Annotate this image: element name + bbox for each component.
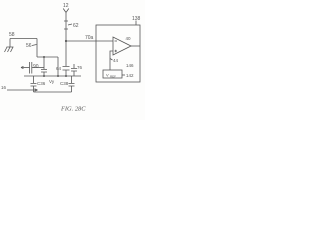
wire: horizontal mid bbox=[37, 56, 58, 58]
node dot at main rail / opamp input bbox=[65, 40, 67, 42]
input wire y67 left bbox=[21, 67, 30, 69]
lower box right vertical with cap bbox=[69, 76, 75, 92]
op-amp U1 bbox=[113, 37, 131, 55]
node dot on mid wire bbox=[43, 56, 45, 58]
svg-text:44: 44 bbox=[113, 58, 119, 63]
plus sign bbox=[115, 50, 118, 53]
wire: transistor drop x44 bbox=[43, 57, 45, 69]
label C36 bbox=[37, 81, 46, 86]
label 138 with tick bbox=[132, 16, 141, 22]
wire: below cap 64 to mid rail bbox=[65, 70, 67, 76]
svg-text:142: 142 bbox=[126, 73, 134, 78]
bottom rail bbox=[34, 91, 72, 93]
mid rail bbox=[24, 75, 81, 77]
label C38 bbox=[60, 81, 69, 86]
label 146 bbox=[126, 63, 134, 68]
capacitor 90 plates bbox=[30, 62, 32, 74]
wire: vertical from 58 line down bbox=[36, 39, 38, 58]
vref box bbox=[103, 70, 122, 78]
svg-text:58: 58 bbox=[9, 32, 15, 38]
label 58 bbox=[9, 32, 15, 38]
svg-text:62: 62 bbox=[73, 23, 79, 29]
svg-text:Vy: Vy bbox=[49, 79, 55, 84]
gate bar at x44 bbox=[41, 70, 47, 73]
op-amp output wire bbox=[131, 45, 140, 47]
svg-text:146: 146 bbox=[126, 63, 134, 68]
svg-text:64: 64 bbox=[56, 66, 62, 71]
figure caption bbox=[60, 106, 86, 113]
label 70a bbox=[85, 35, 94, 41]
ground chassis bbox=[5, 47, 14, 52]
current source 62 ticks bbox=[64, 21, 68, 29]
label 64 bbox=[56, 66, 62, 71]
svg-text:C38: C38 bbox=[60, 81, 69, 86]
leader to 62 bbox=[68, 24, 72, 25]
wire: left horizontal 58 bbox=[10, 38, 37, 40]
wire: down to ground bbox=[9, 39, 11, 48]
wire: drop at x58 to mid rail bbox=[57, 57, 59, 76]
input arrowhead bbox=[21, 66, 24, 68]
svg-text:FIG. 28C: FIG. 28C bbox=[60, 106, 86, 113]
wire y67 right bbox=[32, 67, 44, 69]
minus sign bbox=[115, 40, 118, 42]
lower mid label bbox=[49, 79, 55, 84]
capacitor 76 bbox=[71, 64, 77, 76]
svg-text:70a: 70a bbox=[85, 35, 94, 41]
label 12 bbox=[63, 3, 69, 9]
svg-text:90: 90 bbox=[33, 64, 39, 70]
wire: to op-amp input bbox=[66, 40, 113, 42]
vref text bbox=[106, 73, 116, 79]
svg-text:12: 12 bbox=[63, 3, 69, 9]
svg-text:76: 76 bbox=[77, 65, 83, 70]
lower box left vertical with cap bbox=[31, 76, 37, 92]
node dots on mid rail bbox=[43, 75, 45, 77]
svg-text:16: 16 bbox=[1, 85, 7, 90]
label 90 bbox=[33, 64, 39, 70]
plus input wire down to vref bbox=[110, 51, 113, 70]
wire below bbox=[43, 72, 45, 76]
wire: main vertical rail lower bbox=[65, 41, 67, 66]
label 76 bbox=[77, 65, 83, 70]
wire: main vertical rail top bbox=[65, 13, 67, 41]
label Vg bbox=[1, 85, 7, 90]
Vg input wire bbox=[7, 89, 38, 91]
svg-text:C36: C36 bbox=[37, 81, 46, 86]
capacitor 64 plates bbox=[63, 67, 70, 71]
svg-text:V: V bbox=[106, 73, 109, 78]
svg-text:REF: REF bbox=[110, 75, 116, 79]
label 40 bbox=[126, 36, 132, 41]
Vg arrowhead bbox=[35, 89, 38, 91]
svg-text:40: 40 bbox=[126, 36, 132, 41]
supply terminal arrow bbox=[63, 9, 69, 13]
label 62 bbox=[73, 23, 79, 29]
svg-text:56: 56 bbox=[26, 43, 32, 49]
label 142 bbox=[126, 73, 134, 78]
label 56 with leader bbox=[26, 43, 32, 49]
amplifier box bbox=[96, 25, 140, 82]
label 44 bbox=[113, 58, 119, 63]
